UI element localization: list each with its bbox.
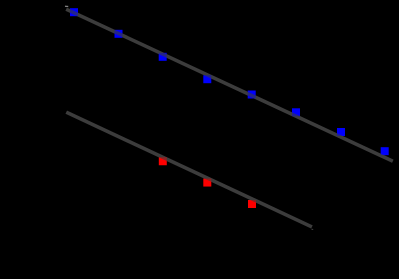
small dark dash at red line end: [312, 228, 314, 230]
blue series data point 6: [292, 108, 300, 116]
blue series data point 3: [159, 53, 167, 61]
blue series data point 4: [203, 75, 211, 83]
blue series fit line (faint overlay across markers): [66, 9, 393, 161]
red series data point 2: [203, 179, 211, 187]
blue series data point 5: [248, 91, 256, 99]
blue series data point 8: [381, 147, 389, 155]
red series fit line (faint overlay across markers): [66, 112, 312, 227]
red series data point 1: [159, 157, 167, 165]
blue series data point 1: [70, 8, 78, 16]
small light dash at blue line start: [65, 5, 68, 7]
red series data point 3: [248, 200, 256, 208]
blue series fit line (under markers): [66, 9, 393, 161]
blue series data point 2: [115, 30, 123, 38]
red series fit line (under markers): [66, 112, 312, 227]
blue series data point 7: [337, 128, 345, 136]
